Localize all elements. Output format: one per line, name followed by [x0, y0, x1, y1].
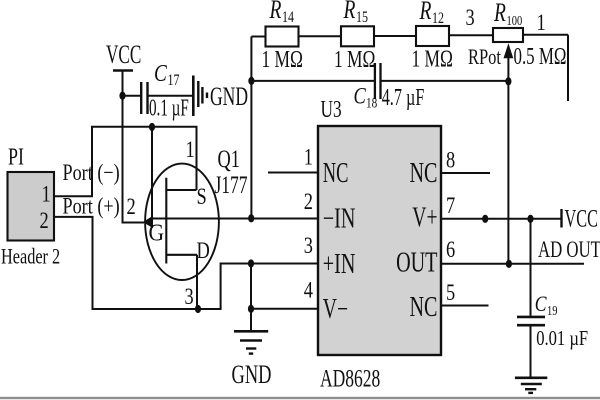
- svg-text:0.5 MΩ: 0.5 MΩ: [514, 44, 567, 69]
- potentiometer R100 RPot: [468, 0, 566, 70]
- svg-text:NC: NC: [410, 292, 438, 323]
- svg-text:−IN: −IN: [323, 203, 356, 234]
- svg-text:2: 2: [304, 188, 313, 215]
- resistor R12: [412, 0, 453, 72]
- svg-text:14: 14: [282, 8, 294, 26]
- svg-text:J177: J177: [215, 171, 248, 199]
- wire Port(+) from header pin2 down to +IN path: [54, 217, 319, 309]
- wire VCC rail down to gate: [123, 71, 145, 223]
- svg-text:1 MΩ: 1 MΩ: [412, 45, 453, 72]
- wire C17 branch: [123, 95, 141, 97]
- svg-text:Q1: Q1: [218, 144, 240, 172]
- svg-text:3: 3: [304, 232, 313, 259]
- svg-text:0.01 µF: 0.01 µF: [536, 327, 588, 350]
- svg-text:V+: V+: [412, 202, 437, 233]
- node pin7 stub junction: [482, 215, 488, 223]
- wire R12-R100 node 3: [449, 34, 493, 36]
- ground symbol (bottom, V-/+IN): [234, 331, 268, 353]
- resistor R14: [262, 0, 303, 73]
- pot wiper arrow: [504, 43, 514, 58]
- node +IN junction: [248, 259, 254, 267]
- wire C17 to sideways ground: [149, 95, 193, 97]
- svg-text:3: 3: [466, 4, 475, 31]
- svg-text:RPot: RPot: [468, 46, 502, 70]
- capacitor C18: [354, 63, 425, 111]
- svg-text:D: D: [197, 237, 210, 264]
- node drain/+IN junction: [195, 305, 201, 313]
- svg-text:S: S: [197, 183, 207, 210]
- svg-text:1: 1: [186, 136, 195, 163]
- source bar: [166, 189, 196, 191]
- svg-text:5: 5: [446, 279, 455, 306]
- svg-text:0.1 µF: 0.1 µF: [149, 95, 189, 121]
- wire R100 right terminal 1 open stub: [523, 35, 568, 101]
- svg-text:C: C: [354, 83, 367, 110]
- svg-text:C: C: [535, 292, 547, 316]
- ground (sideways) after C17: [193, 76, 207, 117]
- node V- junction: [248, 305, 254, 313]
- connector PI Header 2: [1, 143, 60, 269]
- svg-text:Port (−): Port (−): [63, 161, 120, 185]
- svg-text:R: R: [493, 0, 506, 27]
- VCC terminal right: [562, 204, 598, 232]
- ground symbol (C19): [515, 378, 547, 393]
- svg-text:+IN: +IN: [323, 249, 356, 280]
- wire pot wiper / feedback vertical to OUT: [507, 53, 509, 264]
- wire pin5 NC stub: [441, 305, 489, 307]
- svg-text:VCC: VCC: [106, 39, 141, 69]
- svg-text:19: 19: [547, 303, 557, 319]
- svg-text:AD OUT: AD OUT: [538, 238, 600, 263]
- VCC supply top left: [106, 39, 141, 70]
- node gate riser junction: [149, 123, 155, 131]
- transistor Q1 J177: [143, 136, 248, 310]
- svg-text:R: R: [269, 0, 282, 24]
- svg-text:GND: GND: [210, 82, 248, 111]
- node feedback/C18 junction: [248, 77, 254, 85]
- wire Port(-) from header pin1 up and over to Q1 source: [54, 127, 197, 196]
- svg-text:GND: GND: [232, 360, 272, 389]
- capacitor C19: [517, 292, 588, 350]
- capacitor C17: [141, 60, 189, 121]
- wire gate through channel to -IN pin2: [152, 218, 318, 220]
- svg-text:Port (+): Port (+): [63, 195, 120, 219]
- svg-text:4.7 µF: 4.7 µF: [382, 85, 425, 111]
- svg-text:V−: V−: [323, 294, 348, 325]
- svg-text:18: 18: [366, 94, 378, 111]
- op-amp U3 AD8628: [304, 95, 455, 392]
- svg-text:1 MΩ: 1 MΩ: [262, 45, 303, 72]
- svg-text:R: R: [343, 0, 356, 24]
- node -IN junction: [248, 214, 254, 222]
- wire C19 branch from VCC rail: [530, 219, 532, 378]
- gate arrow: [143, 216, 153, 228]
- svg-text:1: 1: [537, 9, 546, 36]
- svg-text:7: 7: [446, 192, 455, 219]
- svg-text:C: C: [154, 60, 167, 87]
- drain bar: [166, 254, 197, 256]
- wire Q1 drain dropper: [196, 255, 198, 309]
- svg-text:2: 2: [40, 207, 49, 234]
- svg-text:AD8628: AD8628: [320, 364, 380, 392]
- wire R14-R15: [299, 35, 342, 37]
- svg-text:2: 2: [127, 193, 136, 220]
- svg-text:NC: NC: [410, 158, 438, 189]
- wire pin4 V-: [251, 308, 318, 310]
- svg-text:VCC: VCC: [565, 204, 598, 232]
- svg-text:R: R: [419, 0, 432, 25]
- svg-text:4: 4: [304, 277, 314, 304]
- wire pin7 V+ to VCC: [441, 218, 561, 220]
- svg-text:1: 1: [304, 144, 313, 171]
- bottom scan edge line: [0, 397, 600, 399]
- wire top chain left corner + feedback left vertical: [251, 37, 265, 219]
- channel bar: [165, 178, 167, 264]
- wire C18 row: [251, 80, 508, 82]
- wire pin1 NC stub: [268, 172, 318, 174]
- node VCC/C17 junction: [119, 92, 125, 100]
- svg-text:NC: NC: [323, 158, 349, 189]
- node OUT/feedback junction: [506, 260, 512, 268]
- svg-text:1: 1: [42, 181, 51, 208]
- svg-text:15: 15: [356, 8, 368, 26]
- svg-text:6: 6: [446, 236, 455, 263]
- svg-text:PI: PI: [8, 143, 24, 170]
- svg-text:12: 12: [432, 9, 444, 27]
- wire pin8 NC stub: [441, 172, 490, 174]
- svg-text:G: G: [149, 219, 165, 245]
- svg-text:U3: U3: [321, 95, 342, 123]
- resistor R15: [334, 0, 375, 73]
- svg-text:3: 3: [185, 283, 194, 310]
- svg-text:OUT: OUT: [396, 247, 437, 278]
- node wiper/C18 junction: [505, 77, 511, 85]
- svg-text:1 MΩ: 1 MΩ: [334, 45, 375, 72]
- svg-text:Header 2: Header 2: [1, 245, 60, 269]
- wire +IN/V- ground vertical: [250, 264, 252, 332]
- node VCC/C19 junction: [527, 215, 533, 223]
- svg-text:8: 8: [446, 147, 455, 174]
- wire gate riser from Port(-) line: [151, 127, 153, 219]
- wire pin6 OUT to AD OUT: [441, 263, 584, 265]
- wire R15-R12: [374, 35, 416, 37]
- svg-text:100: 100: [507, 13, 523, 29]
- svg-text:17: 17: [168, 71, 180, 89]
